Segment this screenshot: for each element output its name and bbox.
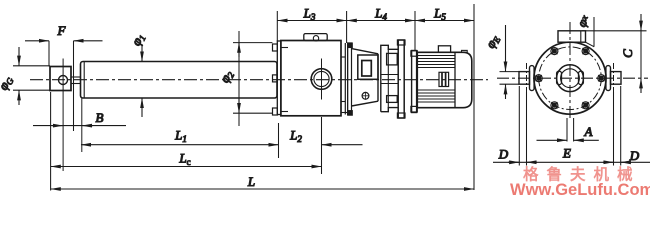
tie-rod stub top — [281, 47, 288, 49]
flange cap top — [411, 51, 417, 56]
hub ear left — [557, 71, 562, 84]
svg-text:D: D — [629, 148, 640, 163]
column window bottom — [387, 96, 398, 103]
joint bolt bottom — [348, 111, 353, 116]
bolt 1 — [598, 75, 605, 82]
gearbox housing — [281, 41, 341, 116]
bolt 6 — [582, 102, 589, 109]
end view horizontal centerline — [497, 77, 648, 79]
svg-text:C: C — [620, 49, 635, 58]
top boss chamfer leader — [586, 42, 595, 47]
lug hole centerline left — [526, 63, 528, 92]
column rib line — [387, 49, 389, 107]
dimension L3 — [277, 20, 346, 22]
dimension E and D line — [493, 161, 650, 163]
main centerline of actuator — [30, 79, 488, 81]
hub circle outer — [557, 65, 584, 92]
rod end cap line — [83, 62, 85, 99]
dimension phi-G (clevis block height) — [13, 65, 50, 67]
motor end bell lug — [462, 50, 468, 52]
lug extension lines down — [518, 86, 520, 166]
inspection window frame — [358, 55, 378, 79]
svg-text:L1: L1 — [174, 128, 187, 145]
nameplate on housing — [304, 34, 327, 41]
bolt 2 — [582, 48, 589, 55]
motor mid band — [439, 72, 449, 86]
svg-text:φE: φE — [482, 32, 502, 51]
bolt 5 — [551, 102, 558, 109]
motor end bell line — [454, 52, 456, 107]
dimension L — [51, 188, 474, 190]
inspection window slot — [362, 61, 372, 77]
motor flange — [412, 51, 417, 113]
housing foot line — [341, 112, 350, 114]
tie-rod stub bottom — [281, 111, 288, 113]
motor fins front top — [418, 56, 455, 68]
top boss inner line — [580, 31, 582, 42]
left lug boss — [530, 66, 535, 91]
bell housing cone — [352, 49, 379, 106]
clevis hole — [59, 76, 68, 85]
svg-text:Lc: Lc — [178, 151, 190, 168]
coupling stub lines — [341, 56, 345, 58]
joint bolt top — [348, 43, 353, 48]
front mounting plate — [277, 41, 281, 115]
dimension L2 — [322, 144, 363, 146]
column window top — [387, 53, 398, 65]
dimension phi-2 (tie-rod span) — [233, 42, 272, 44]
tie-rod nut middle — [273, 75, 278, 82]
bolt pitch circle — [539, 47, 602, 110]
reducer ribbed column — [381, 45, 398, 111]
output screw boss outer — [311, 69, 332, 90]
dimension L4 — [347, 20, 415, 22]
rear plate cap bottom — [397, 113, 405, 118]
dimension C — [582, 30, 647, 32]
right lug plate — [611, 72, 622, 85]
nameplate hole — [313, 36, 318, 41]
output screw boss inner — [314, 71, 329, 86]
clevis hole vertical centerline / extension — [62, 59, 64, 172]
left lug plate — [519, 72, 530, 85]
svg-text:L5: L5 — [433, 6, 446, 23]
lug hole centerline right — [613, 63, 615, 92]
bolt 3 — [551, 48, 558, 55]
svg-text:F: F — [57, 23, 67, 38]
flange disc — [534, 42, 606, 114]
dimension L1 — [81, 144, 279, 146]
rear plate cap top — [397, 40, 405, 45]
top boss box — [558, 31, 586, 42]
top boss extension line — [593, 17, 595, 47]
drain plug — [362, 92, 369, 99]
threaded neck between clevis and rod — [71, 76, 81, 78]
svg-text:L: L — [247, 174, 255, 189]
column mid lines — [381, 74, 398, 76]
dimension L5 — [415, 20, 474, 22]
svg-text:φ2: φ2 — [217, 67, 237, 85]
svg-text:L3: L3 — [303, 6, 316, 23]
tie-rod nut bottom — [273, 108, 278, 115]
svg-text:φx: φx — [574, 12, 593, 29]
clevis rod-end block — [50, 67, 71, 91]
right lug boss — [606, 66, 611, 91]
boss vertical centerline — [321, 59, 323, 100]
dimension B (hole centre to rod face) — [33, 125, 126, 127]
svg-text:φ1: φ1 — [128, 31, 148, 49]
svg-text:L4: L4 — [374, 6, 387, 23]
housing / bell joint flange — [344, 43, 346, 115]
bolt 4 — [535, 75, 542, 82]
piston rod / outer tube — [81, 62, 278, 99]
end view vertical centerline — [569, 22, 571, 118]
svg-text:B: B — [96, 110, 104, 125]
motor body — [417, 52, 472, 107]
tie-rod nut top — [273, 44, 278, 51]
motor fins front bottom — [418, 90, 455, 102]
hub ear right — [579, 71, 584, 84]
svg-text:E: E — [562, 146, 571, 161]
top chain extension lines — [276, 11, 278, 41]
clevis left extension line — [50, 92, 52, 191]
dimension Lc — [51, 166, 322, 168]
svg-text:L2: L2 — [289, 128, 302, 145]
svg-text:Www.GeLufu.Com: Www.GeLufu.Com — [510, 181, 650, 199]
reducer rear plate — [398, 40, 404, 118]
flange cap bottom — [411, 106, 417, 112]
dimension F (clevis width) — [48, 41, 50, 67]
motor terminal box — [438, 46, 450, 53]
svg-text:D: D — [498, 147, 509, 162]
dimension phi-E — [500, 71, 520, 73]
dimension A — [566, 118, 568, 142]
hub circle inner — [561, 69, 580, 88]
svg-text:A: A — [584, 124, 593, 139]
